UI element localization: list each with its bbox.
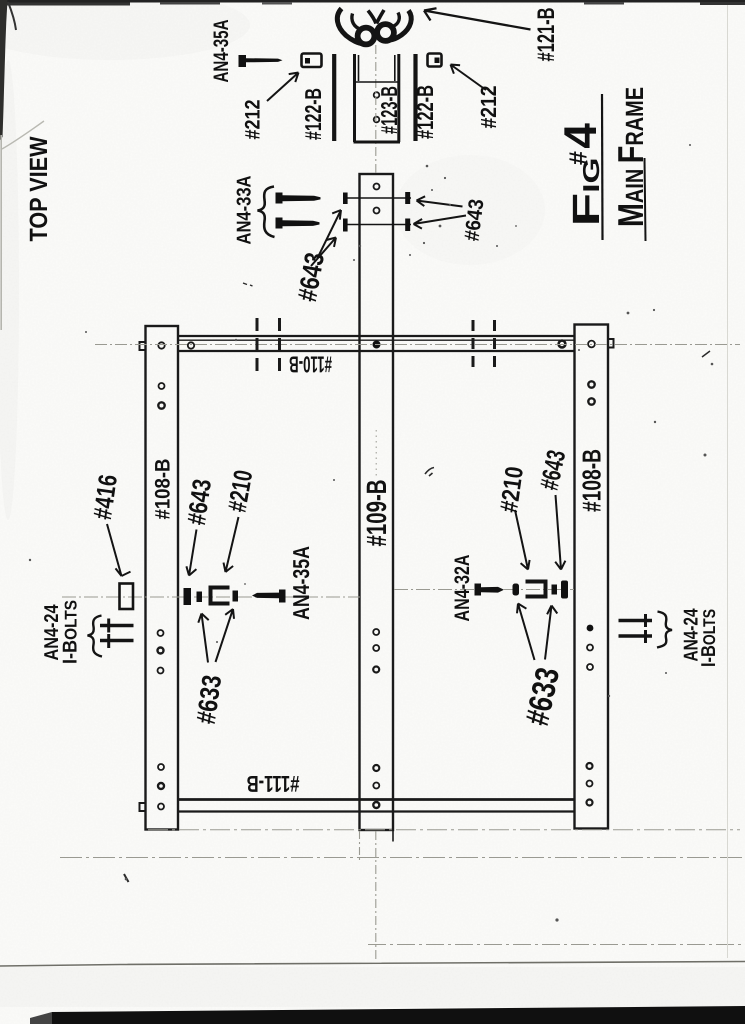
scanner bar fade left (30, 1012, 52, 1024)
left bar hole (159, 383, 165, 389)
svg-text:#111-B: #111-B (247, 771, 300, 797)
underline MAIN FRAME (645, 158, 646, 241)
left bar hole (158, 668, 164, 674)
arrow #633 left a (198, 614, 208, 663)
clip #210 (open left) (526, 582, 546, 597)
left bar hole (158, 342, 164, 348)
center bar hole (373, 629, 379, 635)
svg-text:#110-B: #110-B (289, 352, 332, 378)
channel #123-B hole (374, 92, 380, 98)
arrow #643 left-assembly (186, 530, 196, 576)
right bar hole (588, 398, 594, 404)
arrow #643 mid-left lower (311, 238, 336, 267)
left bar hole (158, 764, 164, 770)
arrow #643 mid-right upper (417, 196, 463, 206)
clip #210 (open right) (211, 588, 230, 604)
centerline vertical through drawing (375, 45, 377, 174)
arrow #416 (107, 524, 131, 576)
svg-text:#122-B: #122-B (300, 88, 326, 140)
svg-text:I-BOLTS: I-BOLTS (60, 600, 82, 664)
svg-text:TOP VIEW: TOP VIEW (25, 136, 53, 241)
washer #633 tick left (513, 584, 520, 596)
horizontal centerline through top rail (95, 344, 740, 346)
channel #123-B web line (355, 81, 399, 83)
brace for right I-bolts (657, 612, 672, 648)
svg-text:#212: #212 (476, 86, 501, 129)
side plate #122-B left (332, 54, 336, 141)
horizontal centerline left mid (62, 596, 360, 598)
washer #643 thick tick (561, 581, 568, 599)
fold line bottom (368, 944, 742, 946)
center member right-edge spur (392, 830, 394, 842)
centerline vertical dotted in bar (375, 430, 377, 478)
arrow #633 right b (545, 606, 557, 660)
spacer #643 tick upper-right (405, 192, 410, 204)
tow eye #121-B right arm (390, 11, 412, 41)
clip #212 right rivet (435, 58, 440, 64)
rail bolt hole right (559, 341, 566, 348)
tow eye #121-B left inner arm (352, 14, 361, 30)
bolt AN4-35A head (mid) (279, 590, 286, 603)
channel #123-B hole (374, 117, 380, 123)
side plate #122-B right (413, 54, 417, 141)
washer #633 small tick right (233, 591, 239, 602)
bolt AN4-33A upper head (276, 193, 283, 204)
bolt AN4-33A upper shaft (283, 195, 321, 201)
stray mark check (425, 468, 434, 477)
svg-text:#416: #416 (87, 473, 123, 522)
svg-text:AN4-35A: AN4-35A (288, 546, 314, 620)
tow eye #121-B center V strokes (368, 10, 384, 24)
right bar hole (587, 781, 593, 787)
centerline vertical short below bar left edge (359, 831, 361, 862)
channel #123-B left wall inner (358, 55, 360, 81)
I-bolt AN4-24 right lower head tick (644, 630, 647, 643)
svg-text:#: # (565, 151, 593, 165)
gray wash top-left (0, 0, 250, 60)
channel #123-B right wall (397, 54, 400, 142)
svg-text:I-BOLTS: I-BOLTS (698, 609, 720, 667)
svg-text:#109-B: #109-B (361, 480, 392, 547)
center bar hole (373, 802, 379, 808)
clip #212 right body (428, 54, 442, 67)
spacer #643 tick lower-right (405, 219, 410, 232)
scan top edge line (0, 0, 745, 3)
svg-text:#122-B: #122-B (412, 85, 438, 139)
right bar hole (587, 763, 593, 769)
stray mark slash (702, 351, 710, 357)
washer #643 thick tick (184, 588, 192, 605)
gray wash top-mid (395, 155, 545, 265)
bottom cross rail #111-B lower line (178, 810, 574, 812)
faint right margin line (727, 2, 729, 958)
right bar tab (608, 339, 614, 348)
washer #633 tick right (552, 585, 558, 595)
I-bolt AN4-24 left lower head tick (107, 634, 110, 648)
I-bolt AN4-24 right upper head tick (644, 614, 647, 627)
bolt AN4-32A head (475, 584, 482, 596)
top cross rail #110-B lower line (178, 350, 574, 352)
arrow #633 right a (517, 604, 535, 661)
right bar hole (587, 645, 593, 651)
center bar hole top (374, 208, 380, 214)
right bar hole filled (587, 625, 594, 632)
rail bolt hole left (188, 342, 194, 348)
svg-text:#123-B: #123-B (376, 86, 402, 134)
center bar hole (373, 667, 379, 673)
fold line lower (60, 857, 742, 859)
top cross rail #110-B upper inner line (178, 339, 574, 341)
underline FIG #4 (601, 94, 604, 240)
arrow #212 right (451, 65, 487, 91)
top cross rail #110-B upper line (178, 335, 574, 337)
brace for left I-bolts (88, 616, 103, 657)
center bar hole (373, 783, 379, 789)
scan noise speckles (627, 312, 630, 315)
bolt AN4-35A head (top) (239, 55, 247, 67)
center bar hole top (374, 184, 380, 190)
svg-text:#108-B: #108-B (152, 459, 175, 520)
spacer line upper through bar (345, 197, 411, 199)
bottom cross rail #111-B upper line (178, 798, 574, 801)
dashed locator pair right on top rail (472, 320, 475, 372)
channel #123-B right wall inner (394, 55, 396, 81)
stray mark tick bottom-left (124, 874, 129, 882)
tow eye #121-B right ring (377, 24, 394, 41)
left side member #108-B (146, 326, 179, 830)
svg-text:#212: #212 (242, 100, 265, 140)
gray wash left edge (0, 60, 19, 520)
washer #633 small tick left (197, 592, 203, 603)
scanner bed black bar (52, 1006, 745, 1024)
right bar hole (588, 381, 594, 387)
left bar upper tab (140, 342, 146, 350)
bolt AN4-33A lower shaft (283, 220, 320, 226)
tow eye #121-B left arm (337, 9, 362, 44)
paper bottom edge line (0, 962, 745, 967)
svg-text:#643: #643 (181, 477, 217, 527)
I-bolt AN4-24 right upper shaft (619, 619, 653, 623)
arrow #643 mid-right lower (414, 216, 467, 229)
dashed locator pair left on top rail (256, 318, 259, 374)
bolt AN4-35A shaft (top) (246, 58, 283, 62)
right bar hole (588, 341, 595, 348)
arrow to tow eye #121-B (424, 8, 531, 29)
center member #109-B (360, 174, 394, 830)
arrow #643 mid-left upper (318, 210, 342, 258)
horizontal centerline right mid (394, 589, 574, 591)
scan left edge blob (0, 0, 8, 140)
spacer line lower through bar (345, 224, 411, 226)
I-bolt AN4-24 left upper shaft (100, 624, 134, 628)
tow eye #121-B right inner arm (394, 13, 400, 27)
fold crease top-left (2, 121, 44, 149)
svg-text:#121-B: #121-B (533, 8, 560, 62)
left bar lower tab (140, 803, 146, 811)
spacer #643 tick upper-left (343, 193, 348, 205)
bolt AN4-32A shaft (481, 587, 504, 593)
left bar hole (158, 630, 164, 636)
right bar hole (587, 800, 593, 806)
arrow #212 left (267, 73, 299, 102)
arrow #210 right-assembly (515, 510, 530, 570)
arrow #210 left-assembly (224, 517, 239, 572)
svg-text:AN4-33A: AN4-33A (234, 176, 256, 245)
clip #212 left body (302, 54, 322, 68)
I-bolt AN4-24 left upper head tick (107, 619, 110, 633)
brace for AN4-33A (258, 187, 275, 238)
channel #123-B bottom (354, 141, 401, 144)
svg-text:AN4-32A: AN4-32A (451, 555, 474, 622)
tow eye #121-B left ring (358, 28, 375, 45)
svg-text:4: 4 (554, 123, 606, 149)
center bar hole (373, 765, 379, 771)
left bar hole (158, 402, 164, 408)
rail bolt dot on center bar (373, 341, 381, 349)
plate #416 (120, 584, 134, 610)
channel #123-B left wall (353, 54, 356, 142)
left bar hole (158, 783, 164, 789)
center bar hole (373, 645, 379, 651)
stray mark dot pair top (243, 283, 253, 286)
I-bolt AN4-24 right lower shaft (619, 634, 653, 638)
svg-text:#108-B: #108-B (577, 449, 607, 512)
scan top edge dashes (0, 3, 130, 6)
bolt AN4-35A shaft (mid) (252, 593, 279, 599)
spacer #643 tick lower-left (343, 219, 348, 232)
right bar hole (587, 664, 593, 670)
gray wash bottom strip (0, 967, 745, 1007)
I-bolt AN4-24 left lower shaft (100, 639, 134, 643)
arrow #633 left b (216, 609, 235, 662)
faint left edge line (0, 135, 2, 330)
centerline vertical below bar (375, 831, 377, 962)
arrow #643 right-assembly (555, 495, 565, 570)
fold line below frame (148, 829, 740, 831)
right side member #108-B (575, 325, 609, 829)
bolt AN4-33A lower head (276, 218, 283, 229)
fold mark top-left (8, 2, 16, 30)
svg-text:AN4-35A: AN4-35A (210, 20, 233, 83)
left bar hole (158, 648, 164, 654)
clip #212 left rivet (305, 58, 310, 64)
left bar hole (158, 804, 164, 810)
